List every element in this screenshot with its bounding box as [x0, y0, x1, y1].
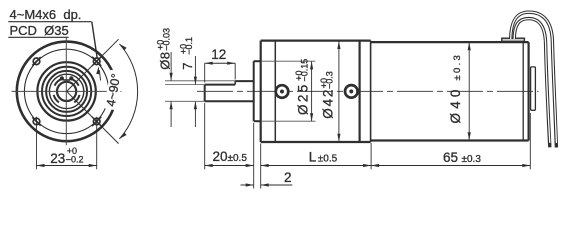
dim 65 line — [371, 164, 530, 167]
svg-text:±0.5: ±0.5 — [318, 153, 338, 164]
bolt hole bottom-right — [93, 118, 100, 125]
svg-text:+0: +0 — [179, 44, 189, 54]
angular extension line to top-right hole — [67, 39, 119, 91]
motor end cap line — [522, 42, 524, 140]
svg-text:L: L — [309, 149, 317, 164]
svg-text:4~M4x6 dp.: 4~M4x6 dp. — [10, 7, 82, 22]
svg-text:Ø8: Ø8 — [157, 52, 172, 70]
dim text D40 — [448, 53, 463, 124]
dim text D25 — [294, 59, 311, 115]
svg-text:+0: +0 — [319, 78, 329, 88]
dim 2 line right part — [261, 183, 293, 186]
shaft circle D8 — [57, 82, 76, 101]
retaining ring lower-right arc — [74, 95, 79, 103]
motor front flange line — [370, 41, 372, 142]
angular dimension arc — [119, 44, 137, 139]
angular extension line to bottom-right hole — [67, 91, 119, 143]
motor bottom edge — [371, 139, 529, 141]
PCD bolt circle — [24, 49, 108, 133]
extension line shaft D8 top — [165, 80, 235, 82]
svg-text:Ø40: Ø40 — [448, 85, 463, 123]
svg-text:7: 7 — [180, 61, 195, 70]
screw head rear — [345, 85, 358, 98]
label 4~M4x6 dp. — [10, 7, 82, 22]
dim D25 line — [310, 61, 313, 121]
motor right edge — [527, 42, 529, 140]
dim text 65 — [443, 150, 481, 165]
dim text 12 — [211, 47, 226, 62]
leader arrow at M4 hole — [96, 66, 100, 80]
extension line shaft bottom — [165, 100, 205, 102]
bolt hole bottom-left — [33, 118, 40, 125]
dim L line — [261, 164, 371, 167]
bolt hole top-left — [33, 58, 40, 65]
retaining ring top arc — [55, 76, 79, 85]
label 4~90 deg — [103, 70, 124, 111]
dim 23 left extension line — [36, 117, 38, 170]
shaft flat top edge — [205, 84, 236, 86]
svg-text:Ø42: Ø42 — [321, 88, 336, 119]
dim 12 right extension — [234, 63, 236, 79]
svg-text:−0.2: −0.2 — [66, 155, 84, 165]
shaft step edge — [234, 81, 236, 85]
label 4~M4x6 underline — [8, 21, 91, 23]
dim D8 line — [170, 52, 173, 127]
dim L right extension — [370, 143, 372, 170]
svg-text:±0.3: ±0.3 — [462, 154, 482, 165]
gearbox front ring circle — [42, 67, 91, 116]
svg-text:±0.3: ±0.3 — [452, 53, 463, 81]
dim D25 top extension — [262, 60, 315, 62]
shaft tip edge — [204, 85, 206, 102]
svg-text:Ø25: Ø25 — [295, 82, 310, 115]
dim 65 right extension — [529, 113, 531, 169]
gearbox rear line — [359, 41, 361, 142]
gearbox top edge — [261, 39, 371, 41]
label PCD D35 — [10, 23, 69, 38]
dim 20 line — [205, 164, 254, 167]
dim text L — [309, 149, 338, 164]
shaft full-diameter top edge — [235, 80, 254, 82]
svg-text:2: 2 — [284, 170, 292, 185]
svg-text:65: 65 — [443, 150, 458, 165]
dim text 2 — [284, 170, 292, 185]
terminal block — [502, 38, 525, 41]
retaining ring lower-left arc — [54, 95, 59, 103]
screw head front — [276, 85, 289, 98]
dim 23 right extension line — [96, 117, 98, 170]
dim D25 bottom extension — [262, 120, 315, 122]
pilot boss circle D25 — [37, 62, 95, 120]
inner ring circle — [46, 71, 87, 112]
dim 23 line — [37, 164, 97, 167]
gearbox front plate line — [274, 41, 276, 142]
extension line front face lower — [253, 123, 255, 189]
leader line from M4x6 label — [92, 22, 98, 59]
flange horizontal centerline — [12, 90, 122, 92]
bolt hole top-right M4 — [93, 58, 100, 65]
dim D40 line — [468, 42, 471, 140]
dim D42 line — [337, 41, 340, 142]
svg-text:20: 20 — [213, 149, 228, 164]
dim 2 line left part — [241, 183, 254, 186]
svg-text:PCD Ø35: PCD Ø35 — [10, 23, 69, 38]
bolt hole top-left slash — [32, 57, 40, 65]
side view centerline — [197, 90, 539, 92]
flange vertical centerline — [65, 37, 67, 145]
svg-text:+0: +0 — [294, 71, 304, 81]
bolt hole bottom-left slash — [32, 117, 40, 125]
extension line mounting face lower — [260, 144, 262, 189]
motor rear bushing — [531, 67, 536, 110]
dim text 20 — [213, 149, 248, 164]
svg-text:23: 23 — [50, 151, 65, 166]
extension line shaft flat top — [165, 84, 205, 86]
gearbox front face — [260, 41, 262, 142]
motor top edge — [371, 41, 529, 43]
bolt hole bottom-right cross — [92, 117, 101, 126]
dim text 7 — [179, 37, 196, 70]
lead wire inner — [514, 19, 550, 148]
shaft bottom edge — [205, 100, 254, 102]
bearing circle — [49, 74, 83, 108]
gearbox pilot boss — [254, 61, 261, 121]
dim text 23 — [50, 146, 83, 166]
dim text D42 — [319, 71, 336, 118]
dim 7 line — [194, 56, 197, 127]
bolt hole top-right cross — [92, 57, 101, 66]
dim 12 line — [205, 62, 236, 65]
svg-text:12: 12 — [211, 47, 226, 62]
dim 12 left extension — [204, 63, 206, 82]
dim text D8 — [156, 28, 173, 70]
flange outer circle — [17, 42, 117, 142]
dim 20 left extension — [204, 103, 206, 169]
gearbox bottom edge — [261, 141, 371, 143]
lead wire outer — [511, 12, 557, 147]
svg-text:+0: +0 — [156, 40, 166, 50]
label PCD underline — [8, 36, 68, 38]
svg-text:±0.5: ±0.5 — [228, 153, 248, 164]
